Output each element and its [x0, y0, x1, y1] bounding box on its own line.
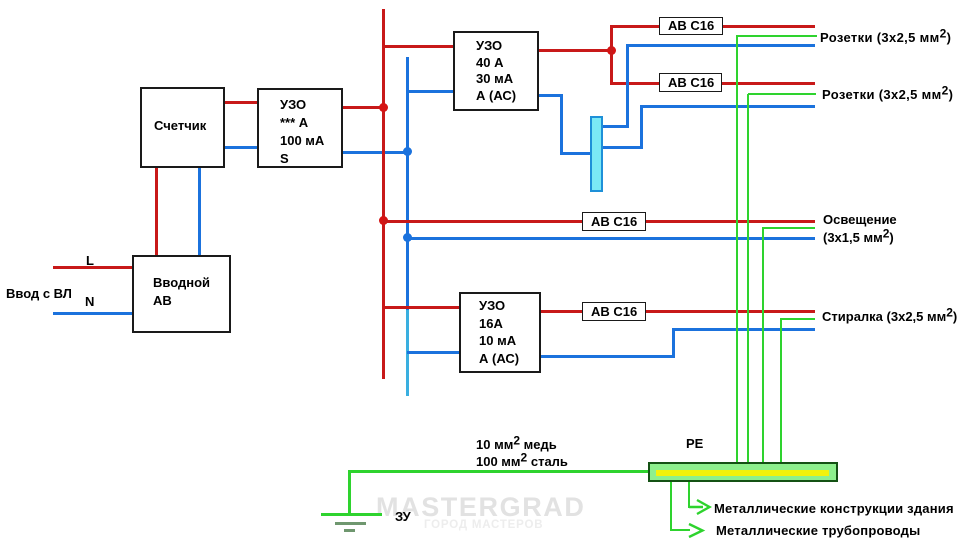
- RCD U1 text: [280, 96, 324, 168]
- wire N washer riser vertical: [672, 328, 675, 358]
- wire N RCD to blue bus: [342, 151, 407, 154]
- wire N RCD40A out: [538, 94, 563, 97]
- wire N riser breaker to meter: [198, 167, 201, 255]
- wire N riser1 to sockets1: [626, 44, 815, 47]
- label Металлические конструкции здания: [714, 501, 954, 517]
- wire L red bus to RCD 16A: [383, 306, 459, 309]
- breaker AB C16 no.2 box: [659, 73, 722, 92]
- wire N riser2 vertical: [640, 105, 643, 149]
- wire PE riser sockets1: [736, 36, 738, 464]
- wire N splitter to riser1: [603, 125, 628, 128]
- wire N RCD16A out: [540, 355, 675, 358]
- breaker AB C16 no.3 box: [582, 212, 646, 231]
- label Ввод с ВЛ: [6, 286, 72, 302]
- label Счетчик: [154, 118, 206, 134]
- wire N into splitter bar: [560, 152, 590, 155]
- label sockets circuit 2: [822, 87, 953, 103]
- RCD 40A text: [476, 38, 516, 104]
- node label N: [85, 294, 94, 310]
- breaker AB C16 no.1 text: [668, 18, 714, 34]
- label РЕ: [686, 436, 703, 452]
- junction dot blue bus at RCD output: [403, 147, 412, 156]
- wire PE sockets1 horizontal: [736, 35, 817, 37]
- wire N blue bus to RCD 16A: [407, 351, 459, 354]
- wire L red bus to RCD 40A: [383, 45, 453, 48]
- wire PE riser lighting: [762, 228, 764, 464]
- wire L breaker1 to sockets1: [723, 25, 815, 28]
- blue bus N tail light: [406, 310, 409, 396]
- junction dot red bus at lighting branch: [379, 216, 388, 225]
- ground electrode symbol line2: [335, 522, 366, 525]
- breaker AB C16 no.4 text: [591, 304, 637, 320]
- wire L RCD40A out to split node: [538, 49, 613, 52]
- watermark MASTERGRAD: [376, 492, 586, 523]
- wire N input from overhead line: [53, 312, 132, 315]
- wire L input from overhead line: [53, 266, 132, 269]
- junction dot L split sockets: [607, 46, 616, 55]
- wire PE earth drop: [348, 470, 351, 515]
- PE busbar yellow stripe: [656, 470, 829, 476]
- wire L to breaker AB C16 no.1: [610, 25, 659, 28]
- wire N meter to RCD: [224, 146, 257, 149]
- wire L meter to RCD: [224, 101, 257, 104]
- wire N blue bus to RCD 40A: [407, 90, 453, 93]
- wire PE busbar drop to pipes: [670, 482, 672, 531]
- wire L breaker2 to sockets2: [721, 82, 815, 85]
- arrow to building structures: [687, 498, 713, 516]
- RCD 16A text: [479, 297, 519, 367]
- wire N washer to label: [672, 328, 815, 331]
- wire N riser1 vertical: [626, 44, 629, 128]
- wire L split vertical: [610, 25, 613, 83]
- wire N splitter to riser2: [603, 146, 643, 149]
- arrow to pipes: [681, 522, 707, 540]
- label ЗУ: [395, 509, 411, 525]
- RCD U1 100mA box: [257, 88, 343, 168]
- breaker AB C16 no.3 text: [591, 214, 637, 230]
- breaker AB C16 no.1 box: [659, 17, 723, 35]
- wire N riser2 to sockets2: [640, 105, 815, 108]
- label Металлические трубопроводы: [716, 523, 920, 539]
- RCD 40A box: [453, 31, 539, 111]
- wire PE main from earth electrode: [348, 470, 649, 473]
- wire PE sockets2 horizontal: [748, 93, 816, 95]
- wire N lighting branch: [407, 237, 815, 240]
- label grounding conductor 100mm2 steel: [476, 454, 568, 470]
- blue bus N vertical: [406, 57, 409, 310]
- wire PE busbar drop to building structures: [688, 482, 690, 508]
- wire L riser breaker to meter: [155, 167, 158, 255]
- ground electrode symbol line3: [344, 529, 355, 532]
- label lighting circuit: [823, 211, 897, 247]
- red bus L vertical: [382, 9, 385, 379]
- input breaker box Вводной АВ: [132, 255, 231, 333]
- label sockets circuit 1: [820, 30, 951, 46]
- label washer circuit: [822, 309, 957, 325]
- wire PE washer horizontal: [780, 318, 815, 320]
- wire L RCD to red bus: [342, 106, 383, 109]
- wire PE riser sockets2: [747, 94, 749, 464]
- junction dot red bus at RCD output: [379, 103, 388, 112]
- breaker AB C16 no.2 text: [668, 75, 714, 91]
- wire L RCD16A out to washer: [540, 310, 815, 313]
- wire N down to N splitter: [560, 94, 563, 155]
- label grounding conductor 10mm2 copper: [476, 437, 557, 453]
- node label L: [86, 253, 94, 269]
- RCD 16A box: [459, 292, 541, 373]
- junction dot blue bus at lighting branch: [403, 233, 412, 242]
- wire PE pipes horizontal: [670, 529, 690, 531]
- PE busbar: [648, 462, 838, 482]
- meter box Счетчик: [140, 87, 225, 168]
- wire PE riser washer: [780, 319, 782, 464]
- wire L to breaker AB C16 no.2: [610, 82, 659, 85]
- wire PE lighting horizontal: [762, 227, 815, 229]
- watermark город мастеров: [424, 519, 543, 531]
- input breaker text: [153, 274, 210, 310]
- ground electrode symbol line1: [321, 513, 382, 516]
- N splitter bar (cyan): [590, 116, 603, 192]
- breaker AB C16 no.4 box: [582, 302, 646, 321]
- wire L lighting branch: [383, 220, 815, 223]
